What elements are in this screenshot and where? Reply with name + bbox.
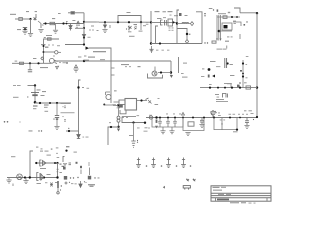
tick	[253, 119, 254, 120]
junction	[256, 116, 258, 118]
label text	[209, 8, 213, 9]
label text long	[40, 67, 48, 68]
label text	[239, 82, 241, 83]
junction	[173, 21, 175, 23]
junction	[159, 117, 161, 119]
junction	[39, 102, 41, 104]
wire gnd stub	[8, 178, 10, 181]
ground	[6, 180, 11, 183]
label row2	[61, 111, 75, 114]
ground	[23, 181, 28, 184]
junction	[117, 104, 119, 106]
label text	[126, 116, 128, 119]
diode D3 diamond	[41, 57, 44, 60]
junction	[103, 104, 105, 106]
label text	[113, 104, 116, 105]
wire U2 pin2	[113, 104, 118, 106]
wire vertical x78	[79, 80, 81, 131]
label text	[45, 111, 49, 112]
arrow terminator down	[77, 131, 80, 139]
ground	[199, 125, 204, 128]
arrow terminator with circle	[57, 181, 59, 194]
label text	[230, 75, 234, 76]
wire crystal drop	[34, 86, 36, 104]
tick	[137, 142, 138, 143]
wire y85 stub	[28, 85, 36, 87]
label text	[137, 114, 140, 117]
transformer bottom arrows	[216, 39, 222, 41]
junction	[209, 87, 211, 89]
tick	[64, 105, 65, 106]
wire y122 segment	[122, 117, 146, 123]
label text	[169, 27, 171, 30]
junction	[217, 87, 219, 89]
wire y177	[7, 177, 58, 179]
label text	[246, 55, 249, 58]
wire snubber	[177, 29, 187, 41]
label text	[87, 87, 90, 90]
label text	[155, 104, 159, 105]
label text	[246, 77, 248, 78]
component mark	[208, 75, 210, 78]
junction	[117, 21, 119, 23]
label text	[244, 110, 246, 111]
tick vertical	[239, 34, 241, 39]
wire box top and right edge	[89, 48, 111, 103]
label text	[139, 31, 143, 32]
resistor R10	[223, 16, 227, 19]
label text	[88, 36, 91, 39]
tick	[176, 165, 178, 167]
ground tp	[131, 141, 135, 147]
tick	[56, 153, 57, 154]
label text	[44, 107, 48, 108]
label text	[56, 147, 59, 148]
label text	[42, 91, 46, 92]
label text	[166, 113, 168, 116]
title text 2	[213, 190, 222, 191]
label text	[76, 25, 80, 26]
wire LED drop	[118, 106, 120, 116]
diode D1 down	[69, 24, 72, 31]
label dash	[182, 77, 188, 78]
wire box loop top	[118, 16, 141, 23]
label text	[76, 26, 78, 29]
label text	[163, 16, 166, 19]
junction	[140, 21, 142, 23]
test point TP1	[136, 158, 141, 168]
title text 1b	[221, 187, 226, 188]
label text	[82, 87, 84, 88]
capacitor C2	[28, 70, 32, 72]
tick dash	[71, 182, 73, 185]
label text	[100, 58, 105, 61]
junction big	[83, 60, 85, 62]
capacitor C4	[158, 118, 162, 128]
ground	[38, 30, 43, 33]
junction	[236, 16, 238, 18]
label text	[33, 58, 36, 59]
junction	[229, 117, 231, 119]
label text	[238, 113, 240, 116]
label text	[97, 21, 99, 24]
label text	[227, 82, 232, 85]
label text	[221, 123, 223, 126]
equals mark	[88, 185, 95, 186]
tick	[137, 140, 138, 141]
label text	[157, 18, 161, 19]
resistor R12	[246, 86, 251, 89]
IC U2	[125, 99, 137, 111]
wire vertical rail x84	[83, 13, 85, 45]
label text	[97, 30, 99, 31]
triangle mark	[182, 112, 185, 115]
label text	[246, 113, 248, 116]
junction node A	[29, 18, 31, 20]
resistor R4 filled	[71, 12, 74, 14]
label text D1	[72, 20, 75, 21]
junction	[34, 84, 36, 86]
arrow terminator	[170, 75, 173, 78]
capacitor C8	[245, 118, 249, 126]
ground	[22, 31, 27, 34]
wire Q4 top	[106, 91, 111, 93]
wire input	[15, 18, 30, 20]
junction	[68, 130, 70, 132]
label text	[234, 22, 236, 25]
tick	[161, 165, 163, 167]
IC U2 left pin box	[119, 100, 125, 105]
label text	[60, 172, 62, 173]
tick	[109, 122, 110, 123]
label text	[167, 49, 169, 52]
label text	[121, 64, 129, 65]
tick vertical	[109, 25, 111, 28]
junction big	[117, 126, 119, 128]
junction	[160, 71, 162, 73]
label text	[29, 130, 33, 131]
resistor R5	[48, 38, 52, 40]
tick	[125, 66, 126, 67]
label text	[33, 105, 38, 106]
label text	[36, 147, 38, 148]
wire R7 drop	[133, 123, 135, 142]
arrow left	[212, 75, 215, 78]
label row1	[61, 102, 71, 105]
label text	[41, 95, 45, 96]
label text	[62, 166, 65, 167]
IC U4 small	[168, 19, 173, 26]
label text	[122, 116, 124, 119]
junction	[54, 162, 56, 164]
label text	[127, 12, 131, 13]
wire vertical x57.5	[57, 163, 59, 178]
tick	[146, 165, 148, 167]
label text	[94, 177, 96, 178]
capacitor C11 lead	[63, 157, 65, 163]
tick	[77, 177, 78, 178]
label text	[33, 108, 36, 109]
label text	[218, 13, 226, 14]
wire long bus y61	[54, 60, 171, 62]
junction big end	[144, 122, 146, 124]
junction	[37, 62, 39, 64]
junction	[49, 102, 51, 104]
wire y163	[36, 162, 58, 164]
tick	[60, 189, 61, 190]
tick	[64, 107, 65, 108]
potentiometer P1	[55, 51, 58, 54]
diode D2 triangle	[77, 21, 79, 23]
label text	[57, 171, 59, 172]
diode D8 diamond	[190, 22, 193, 26]
ground	[73, 69, 78, 72]
inductor L1 circle	[149, 116, 152, 119]
wire jog down	[224, 84, 231, 88]
label text C1	[17, 29, 21, 30]
label text	[173, 113, 175, 116]
label text	[84, 56, 86, 57]
junction	[66, 62, 67, 63]
label text	[172, 27, 174, 30]
label text dash	[46, 35, 52, 36]
label text	[218, 114, 221, 117]
label text	[37, 183, 41, 184]
junction	[29, 176, 31, 178]
label text	[162, 49, 164, 52]
signal arrow into box	[86, 47, 90, 50]
label underline	[216, 100, 228, 103]
wire to x257	[240, 12, 257, 14]
label text	[223, 119, 225, 122]
junction	[174, 117, 176, 119]
label text	[216, 99, 224, 100]
wire R13	[242, 60, 244, 88]
wire y103	[35, 102, 71, 104]
label text	[249, 110, 252, 111]
resistor R6	[20, 62, 24, 64]
bench flag symbol	[183, 186, 190, 190]
tick dash	[45, 181, 47, 184]
label text R2	[42, 25, 44, 26]
wire vertical x177	[177, 10, 179, 44]
label text	[146, 21, 149, 24]
junction	[242, 62, 244, 64]
junction	[44, 22, 46, 24]
wire gnd stem	[162, 127, 164, 131]
junction	[132, 121, 134, 123]
tick	[41, 130, 42, 131]
wire	[29, 63, 31, 69]
junction	[35, 162, 37, 164]
junction	[203, 117, 205, 119]
junction big	[77, 86, 79, 88]
label text	[137, 127, 140, 130]
label text	[231, 36, 233, 37]
wire top bus middle	[99, 21, 151, 23]
title block corner cells	[216, 198, 268, 201]
junction	[224, 87, 226, 89]
label text underline	[84, 59, 90, 62]
label text	[181, 72, 184, 75]
junction	[56, 162, 58, 164]
junction	[231, 87, 233, 89]
wire branch right	[84, 21, 99, 23]
wire pot	[44, 51, 56, 53]
label text	[45, 151, 49, 152]
wire top bus left	[43, 23, 84, 25]
junction	[170, 71, 172, 73]
label mark	[138, 66, 141, 67]
component mark	[237, 85, 240, 87]
tick	[48, 44, 49, 45]
IC U7 bracket	[37, 173, 44, 181]
junction	[140, 99, 142, 101]
wire Q8 stub	[154, 67, 156, 72]
subtitle dash	[241, 202, 246, 203]
opto U3 bracket	[161, 20, 167, 26]
transistor Q1	[34, 14, 37, 20]
tick	[7, 121, 9, 123]
wire y31	[219, 30, 232, 32]
label text	[40, 151, 43, 152]
ground	[54, 126, 59, 129]
junction	[256, 86, 258, 88]
label text	[98, 177, 100, 178]
subtitle dash	[254, 202, 256, 205]
capacitor C6	[173, 118, 177, 128]
resistor R8	[188, 122, 194, 126]
resistor column x81	[80, 166, 82, 168]
junction	[62, 22, 64, 24]
label text	[66, 21, 68, 22]
transformer T1 windings	[217, 15, 221, 41]
label text	[217, 9, 219, 11]
junction	[155, 116, 157, 118]
label text	[225, 41, 229, 42]
label text	[13, 97, 19, 98]
label text	[242, 113, 244, 116]
mounting hole mark	[193, 179, 196, 182]
tick	[64, 119, 65, 120]
junction	[104, 21, 106, 23]
tick	[27, 96, 28, 97]
label text	[233, 131, 238, 132]
label text Q1	[35, 11, 37, 12]
wire gnd stem	[171, 127, 173, 131]
wire L corner	[44, 39, 60, 63]
junction big	[208, 68, 211, 71]
junction big	[218, 30, 221, 33]
junction	[150, 42, 152, 44]
arrow down on rail	[82, 32, 85, 38]
junction	[83, 27, 85, 29]
wire rail 2	[183, 118, 204, 131]
plus mark	[65, 182, 68, 185]
wire cluster bus	[151, 21, 177, 23]
tick	[64, 121, 65, 122]
wire gnd stub	[25, 178, 27, 181]
label text	[201, 75, 204, 78]
wire U2 out	[137, 100, 148, 102]
label text	[158, 97, 160, 100]
junction	[83, 21, 85, 23]
junction	[56, 176, 58, 178]
title text dark	[217, 199, 229, 201]
label text	[41, 148, 43, 149]
tick mark	[12, 184, 14, 187]
wire to arrow	[66, 130, 79, 132]
label text	[117, 106, 120, 109]
label text	[58, 13, 61, 14]
label text	[179, 113, 181, 116]
wire corner down x171	[170, 61, 172, 75]
subtitle dash	[230, 202, 239, 203]
label text	[74, 152, 77, 153]
tick	[204, 42, 205, 43]
ground	[53, 30, 58, 33]
wire bottom y43	[151, 43, 202, 45]
test point TP4	[181, 158, 186, 168]
zener D5	[146, 98, 152, 104]
wire Q1-R2	[38, 21, 41, 24]
transistor Q2	[49, 58, 54, 63]
junction	[227, 62, 229, 64]
wire main band y117	[146, 117, 257, 119]
label text	[44, 37, 46, 38]
transistor Q7	[17, 174, 23, 180]
tick	[70, 177, 71, 178]
IC U5 box	[222, 23, 232, 30]
wire column	[80, 170, 82, 175]
tick	[61, 185, 62, 186]
label text	[218, 112, 220, 115]
wire	[56, 120, 58, 126]
transistor Q5	[211, 110, 217, 118]
ground	[160, 131, 165, 134]
capacitor	[23, 28, 27, 30]
label text	[210, 61, 216, 62]
junction	[186, 33, 188, 35]
label dash	[13, 84, 16, 87]
tick	[53, 55, 54, 56]
title block frame	[211, 186, 271, 201]
label text 5m	[41, 44, 46, 45]
label text	[156, 49, 158, 52]
junction	[176, 22, 178, 24]
wire vertical x257	[256, 13, 258, 117]
connector J1 pins	[111, 68, 115, 75]
junction	[256, 12, 258, 14]
diode D9 diamond	[185, 40, 188, 44]
label text box title	[93, 51, 106, 52]
tick	[246, 21, 247, 22]
tick	[69, 182, 70, 183]
capacitor C3	[55, 116, 59, 118]
wire y17	[217, 16, 240, 18]
label text	[217, 96, 220, 99]
resistor R1	[19, 18, 23, 21]
junction	[43, 51, 45, 53]
tick	[52, 44, 53, 45]
test point TP3	[166, 158, 171, 168]
wire U8 bottom	[148, 74, 163, 79]
label text	[233, 113, 236, 116]
subtitle dash	[249, 202, 252, 205]
label text	[216, 65, 220, 68]
wire L2	[177, 23, 190, 25]
label text	[15, 61, 18, 62]
